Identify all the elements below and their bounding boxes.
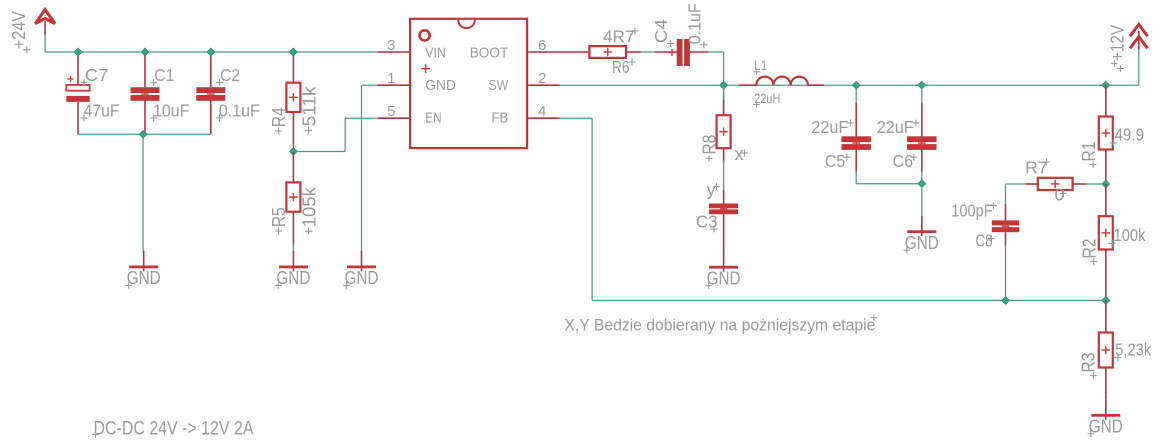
note text X,Y [564,314,877,334]
svg-text:BOOT: BOOT [470,45,509,62]
wire SW node down to R8 [723,85,725,115]
ground GND under C3 [705,251,740,289]
svg-text:FB: FB [491,110,508,127]
svg-text:VIN: VIN [425,45,446,62]
junction R2/R3/FB node [1102,297,1110,305]
svg-text:C4: C4 [651,19,671,43]
ground GND under IC [343,251,378,289]
junction C6 top [918,81,926,89]
svg-text:5: 5 [387,103,395,120]
ground GND under R5 [275,251,310,289]
wire R7 right to divider [1084,183,1106,185]
wire output rail [724,84,1139,86]
wire C8 to FB rail [1005,244,1007,300]
svg-text:10uF: 10uF [153,101,190,121]
junction R7/R1/R2 node [1102,180,1110,188]
svg-text:22uH: 22uH [754,91,780,106]
svg-text:2: 2 [538,70,546,87]
junction bottom rail [139,130,147,138]
svg-text:R8: R8 [700,135,720,155]
svg-text:6: 6 [538,37,546,54]
resistor R3 [1079,300,1152,401]
capacitor C8 [951,201,1019,251]
IC pin 6 stub (BOOT) [527,51,560,53]
wire C5 to C6 bottom [856,183,922,185]
svg-text:R4: R4 [269,107,289,127]
svg-text:4R7: 4R7 [603,26,635,46]
junction C5 top [852,81,860,89]
resistor R8 [700,100,749,164]
svg-text:0.1uF: 0.1uF [219,101,260,121]
junction SW node [720,81,728,89]
svg-text:C6: C6 [893,151,914,171]
svg-text:100k: 100k [1114,225,1146,245]
svg-text:C8: C8 [976,230,993,250]
junction top rail C2 [207,48,215,56]
resistor R2 [1080,184,1146,300]
svg-text:3: 3 [387,37,395,54]
svg-text:DC-DC 24V -> 12V 2A: DC-DC 24V -> 12V 2A [94,419,254,440]
ground GND input caps [125,251,160,289]
svg-text:105k: 105k [300,186,320,227]
svg-text:C5: C5 [825,151,846,171]
svg-text:R5: R5 [269,207,289,227]
wire +24V to rail [44,34,46,52]
svg-text:47uF: 47uF [84,101,120,121]
wire C4 to SW node [708,51,724,53]
resistor R1 [1079,85,1144,184]
svg-text:100pF: 100pF [951,201,993,221]
junction C8 bottom [1002,297,1010,305]
IC pin 2 stub (SW) [527,84,560,86]
supply +24V symbol [9,10,55,54]
svg-text:22uF: 22uF [811,117,848,137]
IC pin 4 stub (FB) [527,117,560,119]
capacitor C3 [696,179,738,252]
svg-text:4: 4 [538,103,546,120]
svg-text:C7: C7 [85,65,109,85]
svg-text:+24V: +24V [9,11,29,49]
inductor L1 [739,58,824,108]
op-amp IC U1 body [410,19,527,148]
svg-text:EN: EN [425,110,441,127]
svg-text:X,Y Bedzie dobierany na pożnie: X,Y Bedzie dobierany na pożniejszym etap… [564,316,875,334]
svg-text:GND: GND [425,77,456,94]
ground GND under R3 [1088,400,1123,437]
svg-text:SW: SW [489,77,509,94]
wire C6 node to GND [921,184,923,217]
svg-text:x: x [735,144,744,164]
capacitor C5 [811,85,871,184]
svg-text:R1: R1 [1079,142,1099,162]
resistor R6 [560,26,641,77]
junction C6 bottom [918,180,926,188]
resistor R7 [1025,158,1086,205]
svg-text:49.9: 49.9 [1115,125,1145,145]
svg-text:5,23k: 5,23k [1115,340,1151,360]
junction R4/R5/EN node [290,148,298,156]
wire R8 to C3 [723,160,725,192]
svg-text:+12V: +12V [1108,25,1128,61]
svg-text:y: y [707,179,716,199]
capacitor C7 [66,52,119,134]
junction top rail R4 [290,48,298,56]
junction top rail C1 [141,48,149,56]
svg-text:C1: C1 [154,65,174,85]
wire +12V down to output rail [1138,49,1140,85]
svg-text:R3: R3 [1079,353,1099,373]
wire FB pin net [560,117,593,119]
svg-text:R2: R2 [1080,239,1100,259]
ground GND under C6 [904,216,939,254]
svg-text:22uF: 22uF [877,117,914,137]
svg-text:C2: C2 [220,65,240,85]
junction R1 top [1102,81,1110,89]
wire R6 to C4 [640,51,655,53]
resistor R5 [269,152,320,246]
wire R3 to GND [1105,399,1107,401]
resistor R4 [269,52,320,146]
supply +12V symbol [1108,24,1148,71]
wire to GND under caps [142,134,144,252]
title text DC-DC [92,419,254,440]
svg-text:1: 1 [387,70,395,87]
IC pin 1 stub (GND) [378,84,411,86]
wire R7 left to C8 [1006,183,1027,185]
svg-text:R7: R7 [1025,158,1048,178]
wire IC GND pin to ground [362,84,378,86]
capacitor C4 [651,3,709,66]
capacitor C1 [131,52,190,134]
junction top rail C7 [74,48,82,56]
svg-text:R6: R6 [612,57,630,77]
wire R5 to GND [292,243,294,252]
IC pin 3 stub (VIN) [378,51,411,53]
svg-text:0.1uF: 0.1uF [685,3,705,44]
svg-text:511k: 511k [300,85,320,126]
IC pin 5 stub (EN) [378,117,411,119]
wire EN pin net [345,117,377,119]
wire input cap bottom rail [78,133,211,135]
capacitor C2 [196,52,259,134]
wire top rail [45,51,378,53]
capacitor C6 [877,85,937,184]
wire SW pin to rail [560,84,724,86]
wire R4 to R5 node [292,144,294,152]
